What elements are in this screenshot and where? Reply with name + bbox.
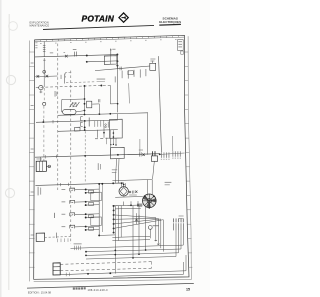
drop dot b <box>138 253 140 255</box>
dash-dot section line x85 low <box>84 131 86 182</box>
column number specks <box>40 42 42 45</box>
vertical pin-label text columns <box>114 76 117 82</box>
module label a <box>150 58 155 61</box>
svg-text:EDITION : 15.04.98: EDITION : 15.04.98 <box>28 291 52 295</box>
drop wire col1 <box>43 42 45 57</box>
wire x104 <box>103 126 105 137</box>
motor feed dot b <box>123 184 125 186</box>
drop dot c <box>145 249 147 251</box>
K1 divider <box>110 56 112 64</box>
mid dot b <box>84 126 86 128</box>
wire tag columns group 2 <box>171 151 174 156</box>
terminal module box <box>150 63 156 70</box>
label C1 <box>50 51 53 54</box>
bottom rail R1 corner up <box>185 255 187 271</box>
ladder rung 4 <box>62 225 66 228</box>
device box C <box>111 147 125 159</box>
collector bottom dot <box>98 234 100 236</box>
small box inside contactor <box>73 103 76 107</box>
label right2 <box>112 171 117 174</box>
lamp/indicator circle <box>39 85 43 89</box>
x64 label <box>60 75 63 79</box>
pin dot c <box>115 144 116 145</box>
box A bottom pins <box>111 138 116 145</box>
label near feed <box>112 48 115 51</box>
coupling labels <box>129 194 137 197</box>
W3 start dot <box>85 255 87 257</box>
motor drop wires to long wires <box>133 206 146 258</box>
footer rule <box>27 283 194 288</box>
wire bus L1 top <box>35 55 118 57</box>
wire rail y122 <box>36 120 118 122</box>
junction y205 a <box>130 204 132 206</box>
fan dot 2 <box>113 218 115 220</box>
motor feed wires <box>122 183 126 187</box>
wire col1 lower <box>43 58 45 87</box>
folio reference box <box>178 40 184 51</box>
wire below motors y205 <box>112 204 142 207</box>
dashed comb <box>58 238 69 242</box>
feet speck c <box>105 137 108 140</box>
KA0 vertical label <box>55 233 58 239</box>
vertical label black <box>138 215 141 224</box>
punch hole 2 <box>6 75 15 84</box>
fan dot 4 <box>113 227 115 229</box>
relay box KA0 <box>36 233 44 241</box>
sloped wire to terminal module <box>95 66 150 71</box>
component pair x75 <box>75 52 77 57</box>
coupling X a <box>129 191 131 193</box>
G1 feed wire <box>40 157 42 161</box>
dot on R1 b <box>109 272 111 274</box>
device box A <box>110 119 123 138</box>
wire below motors y208 <box>115 207 141 210</box>
rotated label XTb <box>39 188 42 195</box>
comb taps group 1 <box>95 120 104 126</box>
fan dot extra top2 <box>113 209 115 211</box>
dash-dot separator x71 <box>70 71 72 244</box>
G1 label <box>36 158 42 161</box>
junction x118/wire2 <box>116 60 118 62</box>
junction rail/chain <box>84 114 86 116</box>
tap ticks on main bus <box>45 155 56 159</box>
motor M1 diamond glyph <box>120 188 127 196</box>
dashed rail D2 <box>60 268 151 271</box>
wire y240 <box>112 240 150 241</box>
tick pair on sloped wire <box>120 67 122 71</box>
long wire W2 <box>86 230 181 251</box>
ladder rung 3 <box>62 213 66 216</box>
left scale ticks <box>29 52 34 267</box>
drum rim dot c <box>148 207 150 209</box>
wire x110 from dash rail down <box>109 85 111 104</box>
page background <box>0 0 210 297</box>
dark patch under drum <box>137 203 142 207</box>
label 216B <box>97 78 106 81</box>
KA vertical label <box>53 213 56 218</box>
ticks crossing R1 <box>66 273 69 277</box>
contact hooks on fan drops <box>155 240 160 245</box>
lamp stem <box>40 90 43 93</box>
rotated label XT <box>38 187 39 196</box>
junction rail c <box>109 113 111 115</box>
small device circle <box>148 226 152 230</box>
pin dot b <box>113 144 114 145</box>
pin dot a <box>110 144 111 145</box>
label KM1 vertical <box>54 91 57 97</box>
junction bus/x85 <box>84 155 86 157</box>
junction y185 c <box>112 182 114 184</box>
box A side label <box>107 122 110 128</box>
x115 crossing dot b <box>114 254 116 256</box>
bottom rail R1 <box>113 271 186 273</box>
stub from junction x118/wire3 <box>116 66 118 69</box>
row label speck <box>31 149 34 150</box>
junction y205 b <box>137 204 139 206</box>
contact X a <box>37 75 40 78</box>
contactor pole slashes <box>70 102 80 107</box>
short vertical x64.7 <box>64 74 66 84</box>
wire to motor top <box>112 182 121 184</box>
junction rail y122 <box>84 120 86 122</box>
collector to fan wire <box>99 234 115 237</box>
frame outer right line <box>188 36 191 279</box>
wire rail y114 <box>58 113 148 116</box>
junction x118/bus1 <box>116 54 118 56</box>
header rule <box>43 25 154 29</box>
wire rung y76 <box>35 75 57 78</box>
junction right of contactor <box>159 153 161 155</box>
splice feed wire <box>139 139 141 152</box>
svg-text:ELECTRIQUES: ELECTRIQUES <box>159 20 181 24</box>
frame outer bottom line <box>34 280 192 282</box>
contactor box <box>151 156 157 161</box>
KA0 dashed stub <box>45 236 71 239</box>
right scale ticks <box>185 52 193 267</box>
drum rim dot b <box>153 195 155 197</box>
box A feed <box>117 114 119 120</box>
drum hub <box>147 199 151 203</box>
chain dot 2 <box>84 103 86 105</box>
ladder rung 1 <box>62 188 66 191</box>
punch hole 1 <box>9 22 18 31</box>
junction on dash rail a <box>84 85 86 87</box>
contact X on bus1 <box>65 55 68 58</box>
fan dot 1 <box>113 214 115 216</box>
capacitor ticks <box>98 99 100 102</box>
relay block K1 <box>104 56 117 65</box>
fan dot 3 <box>113 223 115 225</box>
wire into drum y197 <box>115 196 143 199</box>
wire into contactor y99 <box>62 98 85 101</box>
POTAIN logo diamond mark <box>119 13 128 22</box>
small box on rail <box>75 127 80 131</box>
short dashed segment above <box>66 81 95 84</box>
long wire W3 <box>86 230 179 255</box>
drop dot a <box>132 257 134 259</box>
box C drop wire b <box>117 159 120 183</box>
tap ticks on rail y185 <box>61 183 69 186</box>
bottom rail R2 corner up <box>183 262 185 274</box>
chain dot 1 <box>84 98 86 100</box>
wire x99 down <box>98 104 100 114</box>
drum rim dot a <box>144 195 146 197</box>
coupling X b <box>135 191 137 193</box>
wire rung2 <box>87 60 118 63</box>
bottom rail R2 <box>113 274 184 276</box>
battery/terminal box G1 <box>36 161 46 172</box>
contact X b <box>46 75 49 78</box>
wire x147 drop <box>146 112 148 155</box>
tap ticks on rail y122 <box>43 119 53 123</box>
X on x136 <box>135 219 137 221</box>
row label speck <box>31 235 34 236</box>
main bus continuation to border <box>160 153 185 154</box>
wire x106.3 down <box>105 138 107 144</box>
long leaning wire right section <box>159 56 162 152</box>
box A dot 1 <box>113 132 115 134</box>
scan crease line <box>8 14 10 290</box>
long wire W4 <box>86 230 176 259</box>
contact label <box>64 51 66 54</box>
margin speck 1 <box>35 41 37 44</box>
contact marks on drop wire <box>43 46 46 52</box>
ladder rung 2 <box>62 200 66 203</box>
drum spokes <box>143 194 157 208</box>
box C drop wire <box>115 159 116 183</box>
junction x87/wire2 <box>86 61 88 63</box>
dash-dot rail y87 <box>36 85 111 87</box>
long wire W1 <box>71 230 184 248</box>
junction x118/wire3 <box>116 65 118 67</box>
terminal labels left <box>153 225 159 226</box>
dashed rail right edge <box>151 262 153 269</box>
motor bottom feeds <box>124 201 138 205</box>
frame top scale line <box>35 37 185 42</box>
bottom rail R1 left extension <box>60 273 113 275</box>
row label speck <box>31 63 34 64</box>
motor M1 circle <box>119 187 128 196</box>
junction y185 b <box>101 183 103 185</box>
vertical x128.7 lower <box>128 83 131 103</box>
terminal comb near border <box>173 223 175 230</box>
svg-text:MAINTENANCE: MAINTENANCE <box>30 24 50 28</box>
OO specks <box>105 124 107 126</box>
near border label <box>179 215 184 218</box>
folio sub box <box>181 51 184 54</box>
connector block X0 <box>53 263 60 275</box>
ladder collector wire B <box>101 184 103 232</box>
junction x87/bus1 <box>86 55 88 57</box>
brake drum wheel <box>143 194 157 208</box>
splice cluster on bus <box>140 152 142 156</box>
module label b <box>150 60 154 63</box>
dashed rail D1 <box>60 262 151 265</box>
label underline <box>97 80 105 82</box>
ELECTRIQUES underline <box>159 23 181 26</box>
dash-dot separator x44 lower <box>43 106 45 162</box>
jog wire y104 to main drop <box>110 103 117 105</box>
component pair label <box>73 48 77 51</box>
junction on main drop <box>117 103 119 105</box>
dashed enclosure corner <box>65 72 72 78</box>
wire tag columns group 1 <box>160 152 163 157</box>
junction bus/x118 <box>117 154 119 156</box>
dash-dot separator x58 <box>57 44 59 190</box>
wire main bus y157 <box>35 154 160 158</box>
dot on R1 a <box>87 273 89 275</box>
feed arrowhead <box>110 48 111 50</box>
junction rail y131 <box>84 129 86 131</box>
label SBb vertical <box>99 164 102 169</box>
module top tick <box>152 61 154 64</box>
wire rail y131 <box>58 130 118 132</box>
W2 start dot <box>85 251 87 253</box>
vertical collector x113.6 <box>113 206 115 233</box>
dot on x104 <box>103 132 105 134</box>
row label speck <box>31 105 34 106</box>
wire x110 drop <box>110 130 112 155</box>
junction on dash rail b <box>100 85 102 87</box>
coil right wire <box>76 111 85 112</box>
small circle right of G1 <box>48 165 51 168</box>
wire x97.7 <box>97 130 99 138</box>
left page-edge shadow <box>0 0 2 297</box>
main drop wire x118 <box>117 54 119 112</box>
contact chain x84.5 <box>84 86 86 114</box>
G1 right stub <box>46 165 50 167</box>
device box D <box>87 101 92 108</box>
wire x115 drop low <box>114 244 116 274</box>
interlock box rows 1-2 <box>91 192 102 200</box>
frame main border <box>34 35 189 279</box>
box D right stub <box>92 103 99 105</box>
tick comb above connector <box>75 246 81 250</box>
junction on rail y122 left <box>42 121 44 123</box>
near border label2 <box>179 217 183 220</box>
coil oval KA1 <box>63 110 76 115</box>
margin speck 2 <box>35 44 37 47</box>
drum dark wedges <box>143 195 156 207</box>
coil left wire up <box>62 100 63 112</box>
feet speck a <box>95 137 98 140</box>
X0 internal bars <box>53 267 60 271</box>
label SB vertical <box>97 163 100 170</box>
x150 drop <box>149 229 151 238</box>
small module box <box>128 71 133 75</box>
ladder collector wire A <box>98 184 100 235</box>
frame outer left line <box>28 41 30 282</box>
fan dot extra top <box>113 205 115 207</box>
junction y185 a <box>98 183 100 185</box>
interlock box rows 3-4 <box>91 217 102 225</box>
label right of motors <box>165 181 172 184</box>
splice label <box>139 149 143 152</box>
punch hole 3 <box>5 188 14 197</box>
wire inside box A <box>112 130 114 138</box>
junction rail b <box>99 113 101 115</box>
fan dot extra bottom <box>113 232 115 234</box>
meter circle on x44 <box>43 102 46 105</box>
feed wire to K1 <box>110 49 112 57</box>
row label speck <box>31 192 34 193</box>
chain dot 3 <box>84 110 86 112</box>
label KM1b vertical <box>55 92 58 96</box>
svg-text:188-010-228-0: 188-010-228-0 <box>88 289 109 292</box>
wire x136 drop <box>136 213 138 224</box>
contact x85 mid <box>84 121 86 130</box>
svg-text:15: 15 <box>186 287 190 291</box>
indicator component <box>43 70 46 73</box>
vertical label col x89 <box>88 118 91 127</box>
x115 crossing dot a <box>114 249 116 251</box>
margin speck 3 <box>35 46 37 49</box>
dash-dot separator x44 <box>43 88 45 102</box>
svg-text:POTAIN: POTAIN <box>82 14 115 24</box>
specks below bus on x44 <box>43 59 45 62</box>
label right1 <box>112 168 117 171</box>
wire y237 <box>112 236 150 237</box>
comb labels low <box>74 242 82 245</box>
wire x147 up <box>147 180 149 196</box>
feet speck b <box>100 137 103 140</box>
box A dot 2 <box>113 136 115 138</box>
motor feed dot a <box>121 182 123 184</box>
contactor bars <box>153 151 155 156</box>
label right of motors 2 <box>165 183 170 186</box>
footer chinese title specks <box>73 288 75 290</box>
contactor drop to motor feeds <box>153 161 155 179</box>
left column verticals <box>115 206 121 244</box>
tag wire down x172 <box>172 136 174 151</box>
contact brackets left of x85 <box>81 117 83 127</box>
wire rail y185 <box>35 183 124 186</box>
top scale ticks <box>35 35 179 41</box>
wire x152 up <box>151 180 153 195</box>
wire upper right y180 <box>112 180 152 181</box>
X on bus at splice <box>142 154 144 156</box>
G1 internal bars <box>39 161 42 171</box>
